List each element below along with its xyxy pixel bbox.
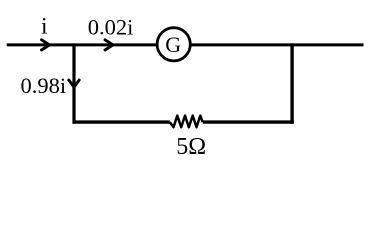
svg-text:5Ω: 5Ω	[176, 134, 206, 160]
svg-text:G: G	[165, 32, 181, 57]
svg-text:i: i	[41, 13, 48, 39]
svg-text:0.02i: 0.02i	[88, 15, 134, 40]
svg-text:0.98i: 0.98i	[21, 73, 67, 98]
